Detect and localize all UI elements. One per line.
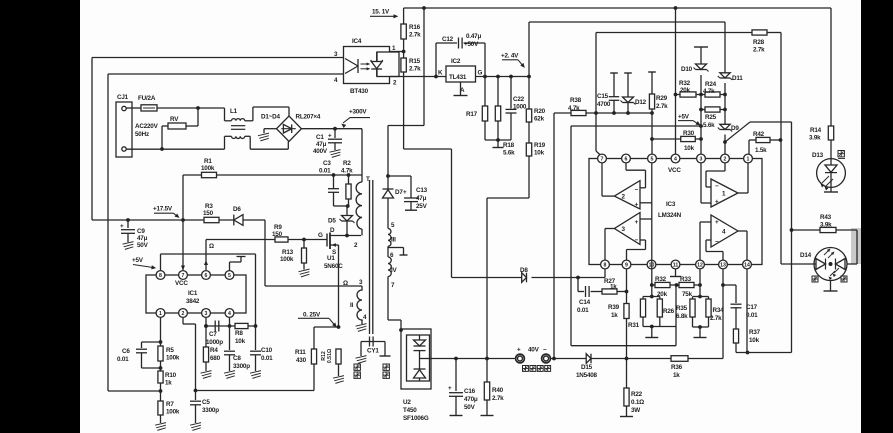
- svg-text:+: +: [448, 385, 452, 392]
- svg-text:5: 5: [651, 157, 654, 163]
- svg-text:−: −: [635, 187, 639, 194]
- svg-text:R36: R36: [671, 364, 683, 371]
- svg-text:C5: C5: [202, 399, 210, 406]
- svg-text:C6: C6: [122, 348, 130, 355]
- svg-text:IC4: IC4: [352, 38, 362, 45]
- svg-text:C16: C16: [464, 388, 476, 395]
- svg-text:+: +: [328, 133, 332, 140]
- svg-text:3.9k: 3.9k: [809, 135, 821, 142]
- svg-text:C14: C14: [579, 299, 591, 306]
- svg-text:−: −: [715, 239, 719, 246]
- svg-text:R39: R39: [608, 304, 620, 311]
- svg-text:R1: R1: [204, 158, 212, 165]
- svg-text:0.01: 0.01: [117, 356, 129, 363]
- svg-text:1.5k: 1.5k: [755, 147, 767, 154]
- svg-text:R22: R22: [631, 391, 643, 398]
- svg-text:4: 4: [228, 311, 231, 317]
- svg-text:R8: R8: [235, 330, 243, 337]
- svg-text:U2: U2: [403, 399, 411, 406]
- svg-text:R7: R7: [166, 401, 174, 408]
- svg-text:D11: D11: [732, 75, 743, 82]
- svg-text:1: 1: [747, 157, 750, 163]
- svg-text:D13: D13: [812, 152, 824, 159]
- svg-text:R37: R37: [749, 329, 761, 336]
- svg-text:1k: 1k: [673, 372, 680, 379]
- svg-text:U1: U1: [327, 255, 335, 262]
- svg-text:R33: R33: [680, 276, 692, 283]
- svg-text:1k: 1k: [165, 380, 172, 387]
- svg-text:R38: R38: [570, 97, 582, 104]
- svg-text:6: 6: [625, 157, 628, 163]
- svg-text:K: K: [438, 70, 443, 77]
- svg-text:R31: R31: [628, 322, 640, 329]
- svg-text:1000: 1000: [513, 104, 527, 111]
- svg-text:100k: 100k: [166, 355, 180, 362]
- svg-text:R9: R9: [274, 224, 282, 231]
- svg-text:4700: 4700: [597, 101, 611, 108]
- svg-text:R40: R40: [492, 387, 504, 394]
- svg-text:100k: 100k: [166, 409, 180, 416]
- svg-text:+: +: [635, 202, 639, 209]
- svg-text:1000p: 1000p: [206, 339, 223, 346]
- svg-text:D15: D15: [581, 364, 593, 371]
- svg-text:3W: 3W: [631, 407, 640, 414]
- svg-text:R32: R32: [679, 80, 691, 87]
- svg-text:R13: R13: [282, 249, 294, 256]
- svg-text:R18: R18: [503, 142, 515, 149]
- svg-text:3842: 3842: [186, 298, 200, 305]
- svg-text:CJ1: CJ1: [117, 94, 129, 101]
- svg-text:50V: 50V: [137, 242, 149, 249]
- svg-text:4.7k: 4.7k: [568, 105, 580, 112]
- svg-text:+17.5V: +17.5V: [153, 206, 173, 213]
- svg-text:R35: R35: [676, 305, 688, 312]
- svg-text:470μ: 470μ: [464, 396, 478, 403]
- svg-text:C8: C8: [233, 355, 241, 362]
- svg-text:R26: R26: [663, 308, 675, 315]
- svg-text:C17: C17: [746, 304, 758, 311]
- svg-text:10k: 10k: [534, 150, 545, 157]
- svg-text:R15: R15: [409, 58, 421, 65]
- svg-text:D5: D5: [328, 218, 336, 225]
- svg-text:3300p: 3300p: [202, 407, 219, 414]
- svg-text:+: +: [403, 189, 407, 196]
- svg-text:G: G: [318, 232, 323, 239]
- svg-text:R12: R12: [321, 351, 327, 361]
- svg-text:D8: D8: [520, 267, 528, 274]
- svg-text:TL431: TL431: [449, 74, 467, 81]
- svg-text:5.6k: 5.6k: [703, 122, 715, 129]
- svg-text:CY1: CY1: [367, 348, 379, 355]
- svg-text:RL207×4: RL207×4: [296, 114, 321, 121]
- svg-text:40V: 40V: [528, 347, 540, 354]
- svg-text:2.7k: 2.7k: [492, 395, 504, 402]
- svg-text:150: 150: [203, 210, 214, 217]
- svg-text:5N60C: 5N60C: [324, 263, 343, 270]
- svg-text:R32: R32: [655, 276, 667, 283]
- svg-text:15. 1V: 15. 1V: [372, 8, 390, 15]
- svg-text:R17: R17: [466, 111, 478, 118]
- svg-text:7: 7: [182, 273, 185, 279]
- svg-text:11: 11: [673, 263, 679, 269]
- svg-text:+: +: [715, 199, 719, 206]
- svg-text:LM324N: LM324N: [658, 212, 682, 219]
- svg-text:+: +: [120, 223, 124, 230]
- svg-text:C22: C22: [513, 96, 525, 103]
- svg-text:C1: C1: [316, 134, 324, 141]
- svg-text:3: 3: [700, 157, 703, 163]
- svg-text:1N5408: 1N5408: [576, 372, 598, 379]
- svg-text:4.7k: 4.7k: [703, 88, 715, 95]
- svg-text:5: 5: [228, 273, 231, 279]
- svg-text:100k: 100k: [280, 256, 294, 263]
- svg-text:6.8k: 6.8k: [676, 313, 688, 320]
- svg-text:50Hz: 50Hz: [135, 131, 149, 138]
- svg-text:SF1006G: SF1006G: [403, 415, 429, 422]
- svg-text:2.7k: 2.7k: [409, 66, 421, 73]
- svg-text:25V: 25V: [416, 203, 428, 210]
- svg-text:2.7k: 2.7k: [409, 32, 421, 39]
- svg-text:IC2: IC2: [451, 58, 461, 65]
- svg-text:III: III: [391, 237, 396, 244]
- svg-text:−: −: [715, 183, 719, 190]
- svg-text:+5V: +5V: [132, 257, 144, 264]
- svg-text:1: 1: [159, 311, 162, 317]
- svg-text:D: D: [330, 227, 335, 234]
- svg-text:R10: R10: [165, 372, 177, 379]
- svg-text:47μ: 47μ: [416, 195, 427, 202]
- svg-text:8: 8: [604, 263, 607, 269]
- svg-text:RV: RV: [170, 116, 179, 123]
- svg-text:2: 2: [724, 157, 727, 163]
- svg-text:2.7k: 2.7k: [710, 315, 722, 322]
- svg-text:R29: R29: [656, 95, 668, 102]
- svg-text:R14: R14: [810, 127, 822, 134]
- svg-text:R43: R43: [820, 214, 832, 221]
- svg-text:+50V: +50V: [464, 41, 479, 48]
- svg-text:R4: R4: [210, 347, 218, 354]
- svg-text:−: −: [543, 347, 547, 354]
- svg-text:400V: 400V: [313, 148, 328, 155]
- svg-text:47μ: 47μ: [316, 141, 327, 148]
- svg-text:20k: 20k: [657, 291, 668, 298]
- svg-text:+5V: +5V: [678, 114, 690, 121]
- svg-text:Ω: Ω: [343, 280, 348, 287]
- svg-text:IC3: IC3: [666, 201, 676, 208]
- svg-text:3.9k: 3.9k: [820, 222, 832, 229]
- svg-text:2: 2: [182, 311, 185, 317]
- svg-text:13: 13: [720, 263, 726, 269]
- svg-text:4.7k: 4.7k: [341, 168, 353, 175]
- svg-text:C9: C9: [137, 228, 145, 235]
- svg-text:G: G: [478, 70, 483, 77]
- svg-text:FU/2A: FU/2A: [138, 95, 156, 102]
- svg-text:R30: R30: [683, 130, 695, 137]
- svg-text:2.7k: 2.7k: [753, 47, 765, 54]
- svg-text:150: 150: [272, 231, 283, 238]
- svg-text:VCC: VCC: [175, 280, 188, 287]
- svg-text:D12: D12: [635, 99, 647, 106]
- svg-text:12: 12: [697, 263, 703, 269]
- svg-text:C15: C15: [597, 93, 609, 100]
- svg-text:100k: 100k: [201, 165, 215, 172]
- svg-text:10k: 10k: [684, 145, 695, 152]
- svg-text:6: 6: [205, 273, 208, 279]
- svg-text:D10: D10: [681, 66, 693, 73]
- svg-text:R2: R2: [343, 160, 351, 167]
- svg-text:R25: R25: [705, 114, 717, 121]
- svg-text:BT430: BT430: [350, 88, 369, 95]
- svg-text:−: −: [635, 237, 639, 244]
- svg-text:R5: R5: [166, 347, 174, 354]
- svg-text:9: 9: [625, 263, 628, 269]
- svg-text:R28: R28: [753, 39, 765, 46]
- svg-text:R42: R42: [753, 131, 765, 138]
- svg-text:D14: D14: [800, 252, 812, 259]
- svg-text:L1: L1: [230, 108, 238, 115]
- svg-text:0.01: 0.01: [577, 307, 589, 314]
- svg-text:C10: C10: [261, 347, 273, 354]
- svg-text:10k: 10k: [749, 337, 760, 344]
- svg-text:3: 3: [205, 311, 208, 317]
- svg-text:1k: 1k: [610, 284, 617, 291]
- svg-text:+: +: [715, 219, 719, 226]
- svg-text:4: 4: [674, 157, 677, 163]
- svg-text:430: 430: [296, 357, 307, 364]
- svg-text:IC1: IC1: [188, 290, 198, 297]
- svg-text:14: 14: [744, 263, 750, 269]
- svg-text:VCC: VCC: [668, 167, 681, 174]
- svg-text:+300V: +300V: [349, 108, 367, 115]
- svg-text:R16: R16: [409, 24, 421, 31]
- svg-text:+2. 4V: +2. 4V: [501, 53, 519, 60]
- svg-text:AC220V: AC220V: [135, 123, 159, 130]
- svg-text:C7: C7: [209, 331, 217, 338]
- svg-text:0.01: 0.01: [319, 168, 331, 175]
- svg-text:20k: 20k: [680, 87, 691, 94]
- svg-text:II: II: [350, 302, 354, 309]
- svg-text:75k: 75k: [682, 291, 693, 298]
- svg-text:+: +: [517, 347, 521, 354]
- svg-text:50V: 50V: [464, 404, 476, 411]
- svg-text:0. 25V: 0. 25V: [303, 311, 321, 318]
- svg-text:3300p: 3300p: [233, 363, 250, 370]
- svg-text:T450: T450: [403, 407, 417, 414]
- svg-text:8: 8: [159, 273, 162, 279]
- svg-text:0.01: 0.01: [746, 312, 758, 319]
- svg-text:0.47μ: 0.47μ: [466, 33, 481, 40]
- svg-text:0.1Ω: 0.1Ω: [631, 399, 644, 406]
- svg-text:D6: D6: [233, 206, 241, 213]
- svg-text:2.7k: 2.7k: [656, 103, 668, 110]
- svg-text:R24: R24: [705, 81, 717, 88]
- svg-text:0.01: 0.01: [261, 355, 273, 362]
- svg-text:62k: 62k: [534, 116, 545, 123]
- svg-text:1k: 1k: [611, 312, 618, 319]
- svg-text:+: +: [635, 219, 639, 226]
- svg-text:0.51Ω: 0.51Ω: [327, 349, 333, 363]
- svg-text:C13: C13: [416, 187, 428, 194]
- svg-text:Ω: Ω: [209, 243, 214, 250]
- svg-text:R19: R19: [534, 142, 546, 149]
- svg-text:10k: 10k: [235, 338, 246, 345]
- svg-text:R20: R20: [534, 108, 546, 115]
- svg-text:5.6k: 5.6k: [503, 150, 515, 157]
- svg-text:C12: C12: [442, 36, 454, 43]
- svg-text:7: 7: [601, 157, 604, 163]
- svg-text:R11: R11: [295, 349, 306, 356]
- svg-text:680: 680: [210, 355, 221, 362]
- svg-text:D1~D4: D1~D4: [261, 114, 280, 121]
- svg-text:C3: C3: [323, 160, 331, 167]
- svg-text:R3: R3: [205, 203, 213, 210]
- svg-text:47μ: 47μ: [137, 235, 148, 242]
